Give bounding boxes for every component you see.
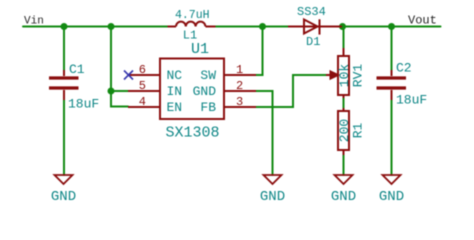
svg-text:U1: U1 [191, 41, 209, 58]
svg-text:FB: FB [200, 100, 216, 115]
svg-text:GND: GND [331, 189, 356, 205]
svg-text:D1: D1 [306, 35, 320, 49]
svg-text:4.7uH: 4.7uH [175, 9, 210, 22]
svg-text:C2: C2 [396, 61, 412, 76]
svg-text:Vout: Vout [408, 14, 437, 28]
svg-text:SW: SW [200, 68, 216, 83]
svg-text:2: 2 [236, 79, 243, 93]
svg-text:Vin: Vin [24, 16, 44, 28]
svg-text:SS34: SS34 [297, 5, 326, 19]
svg-text:SX1308: SX1308 [166, 125, 220, 142]
svg-text:R1: R1 [351, 123, 366, 139]
svg-text:18uF: 18uF [68, 96, 99, 111]
svg-text:GND: GND [379, 189, 404, 205]
svg-text:GND: GND [193, 84, 217, 99]
svg-text:GND: GND [260, 189, 285, 205]
svg-text:GND: GND [51, 189, 76, 205]
svg-text:IN: IN [167, 84, 183, 99]
svg-text:3: 3 [236, 95, 243, 109]
svg-text:18uF: 18uF [396, 93, 427, 108]
svg-text:NC: NC [167, 68, 183, 83]
svg-text:EN: EN [167, 100, 183, 115]
svg-text:RV1: RV1 [351, 64, 366, 88]
svg-text:6: 6 [139, 63, 146, 77]
svg-text:4: 4 [139, 95, 146, 109]
svg-text:5: 5 [139, 79, 146, 93]
svg-text:1: 1 [236, 63, 243, 77]
svg-text:C1: C1 [69, 62, 85, 77]
